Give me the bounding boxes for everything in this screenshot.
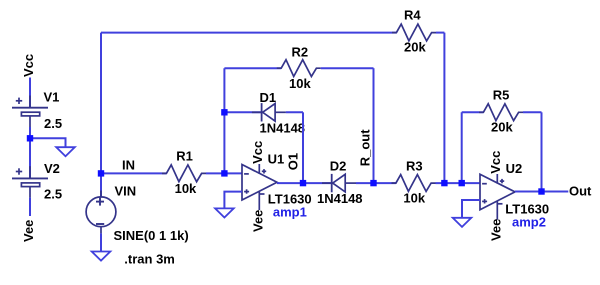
node O1 label <box>286 153 301 170</box>
svg-text:Vcc: Vcc <box>21 54 36 77</box>
svg-text:1N4148: 1N4148 <box>260 121 306 136</box>
svg-text:2.5: 2.5 <box>44 186 62 201</box>
resistor R4 <box>392 24 436 41</box>
svg-text:10k: 10k <box>175 181 197 196</box>
op-amp U1 triangle <box>242 165 277 201</box>
svg-text:amp2: amp2 <box>512 215 546 230</box>
node junction O1 <box>300 180 306 186</box>
node junction U2 output <box>538 188 544 194</box>
U2 Vee label <box>488 219 503 241</box>
ground at U1 non-inverting input <box>215 208 234 217</box>
U1 Vcc label <box>250 141 265 164</box>
resistor R5 <box>479 104 523 121</box>
wire U2 non-inverting input to ground <box>462 200 480 218</box>
svg-text:Vee: Vee <box>251 210 266 232</box>
svg-text:SINE(0 1 1k): SINE(0 1 1k) <box>114 228 189 243</box>
U2 Vcc power stub <box>496 174 498 184</box>
svg-text:D2: D2 <box>330 159 347 174</box>
svg-text:Vcc: Vcc <box>250 141 265 164</box>
wire D1 vertical down to O1 node <box>302 112 304 183</box>
svg-text:20k: 20k <box>404 40 426 55</box>
svg-text:R3: R3 <box>406 159 423 174</box>
U2 V- power marker <box>498 203 503 205</box>
voltage source VIN <box>86 191 116 234</box>
svg-text:.tran 3m: .tran 3m <box>124 252 175 267</box>
resistor R1 <box>162 165 206 182</box>
wire R5 right vertical to output node <box>541 112 543 191</box>
wire R5 row right <box>523 111 542 113</box>
node junction U1 inverting input <box>221 170 227 176</box>
U2 non-inverting input marker <box>482 199 487 203</box>
resistor R2 <box>277 60 321 77</box>
voltage source V1 battery <box>12 96 48 128</box>
svg-text:Vee: Vee <box>488 219 503 241</box>
svg-text:2.5: 2.5 <box>44 116 62 131</box>
svg-text:V2: V2 <box>44 161 60 176</box>
wire U2 output to Out <box>515 191 568 193</box>
node Vee label left rail <box>21 220 36 242</box>
svg-text:R5: R5 <box>493 88 510 103</box>
node junction R_out <box>370 180 376 186</box>
U1 Vee label <box>251 210 266 232</box>
U1 inverting input marker <box>244 173 249 175</box>
svg-text:VIN: VIN <box>115 184 137 199</box>
node junction U2 inverting input <box>459 180 465 186</box>
ground at U2 non-inverting input <box>453 218 472 227</box>
wire R2 row right <box>321 67 374 69</box>
wire D2 to R3 <box>356 182 396 184</box>
svg-text:amp1: amp1 <box>273 205 307 220</box>
node junction V1 V2 midpoint <box>27 135 33 141</box>
U1 V- power marker <box>260 193 265 195</box>
wire R1 to U1 inverting input <box>206 172 242 174</box>
svg-text:U1: U1 <box>268 151 285 166</box>
U2 V+ power marker <box>500 179 504 183</box>
wire left vertical from top rail to IN node <box>100 33 102 174</box>
wire R_out vertical <box>373 68 375 183</box>
op-amp U2 triangle <box>480 174 515 210</box>
wire D1 row left <box>224 111 261 113</box>
svg-text:R_out: R_out <box>358 129 373 167</box>
wire U1 output row to D2 <box>277 182 332 184</box>
svg-text:Out: Out <box>569 184 592 199</box>
wire V1 to mid junction <box>29 127 31 138</box>
wire R2 row left <box>224 67 281 69</box>
U2 Vcc label <box>488 151 503 174</box>
wire VIN to ground <box>100 233 102 251</box>
diode D2 <box>322 174 356 192</box>
diode D1 <box>252 103 286 121</box>
wire R5 row left <box>462 111 484 113</box>
wire input row from IN node to R1 <box>101 172 166 174</box>
wire R4 right to corner <box>436 32 444 34</box>
U1 Vcc power stub <box>258 164 260 174</box>
svg-text:R1: R1 <box>176 149 193 164</box>
node junction D1 branch <box>221 109 227 115</box>
wire R4 vertical down to output row <box>443 33 445 184</box>
svg-text:V1: V1 <box>44 90 60 105</box>
wire R3 to U2 inverting input <box>436 182 481 184</box>
svg-text:O1: O1 <box>286 153 301 170</box>
ground at supply midpoint <box>56 147 75 156</box>
wire top feedback rail left segment <box>101 32 396 34</box>
wire Vcc rail to V1 <box>29 78 31 108</box>
svg-text:Vcc: Vcc <box>488 151 503 174</box>
U1 non-inverting input marker <box>244 189 249 193</box>
node junction R4 output row <box>441 180 447 186</box>
voltage source V2 battery <box>12 166 48 197</box>
svg-text:R4: R4 <box>404 8 421 23</box>
svg-text:10k: 10k <box>403 190 425 205</box>
node junction IN <box>98 170 104 176</box>
node R_out label <box>358 129 373 167</box>
svg-text:20k: 20k <box>491 120 513 135</box>
svg-text:D1: D1 <box>260 90 277 105</box>
node Vcc label left rail <box>21 54 36 77</box>
svg-text:1N4148: 1N4148 <box>317 191 363 206</box>
svg-text:10k: 10k <box>289 76 311 91</box>
U1 V+ power marker <box>262 169 266 173</box>
wire V2 to Vee <box>29 198 31 216</box>
ground at VIN <box>92 252 111 261</box>
wire U1 non-inverting input to ground <box>224 192 242 209</box>
svg-text:IN: IN <box>122 158 135 173</box>
wire mid junction to V2 <box>29 138 31 178</box>
svg-text:U2: U2 <box>506 161 523 176</box>
wire mid junction to ground branch <box>30 138 66 147</box>
svg-text:R2: R2 <box>292 44 309 59</box>
wire R5 left vertical to U2 inverting node <box>461 112 463 183</box>
U2 inverting input marker <box>482 183 487 185</box>
U2 Vee power stub <box>496 201 498 220</box>
U1 Vee power stub <box>258 191 260 210</box>
resistor R3 <box>392 175 436 192</box>
svg-text:Vee: Vee <box>21 220 36 242</box>
wire R2 left vertical down to U1 inverting input <box>223 68 225 173</box>
wire IN node down to VIN source <box>100 173 102 197</box>
wire D1 row right <box>286 111 303 113</box>
